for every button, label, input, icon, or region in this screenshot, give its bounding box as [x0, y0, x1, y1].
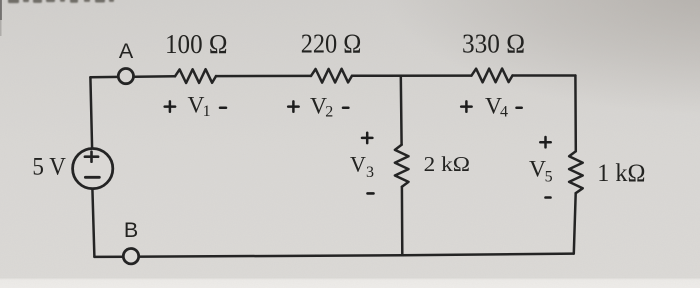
- wire middle branch from top junction down to R4: [400, 76, 403, 145]
- voltage source VS1 5V circle: [73, 149, 113, 189]
- label V1 polarity minus: [220, 106, 226, 109]
- svg-text:B: B: [124, 218, 138, 242]
- wire left branch from corner down to source top: [90, 77, 92, 148]
- label V4 polarity minus: [517, 106, 522, 109]
- svg-text:5 V: 5 V: [32, 154, 66, 181]
- svg-text:2 kΩ: 2 kΩ: [424, 152, 470, 176]
- svg-text:1 kΩ: 1 kΩ: [597, 160, 645, 187]
- svg-text:100 Ω: 100 Ω: [165, 29, 228, 59]
- svg-text:4: 4: [500, 104, 508, 121]
- svg-text:1: 1: [203, 103, 211, 120]
- label V2 polarity minus: [343, 106, 348, 109]
- wire R3 to top-right corner: [513, 74, 576, 77]
- label V5 polarity plus: [540, 137, 550, 147]
- label V3 polarity minus: [368, 192, 374, 195]
- svg-text:V: V: [529, 157, 546, 183]
- svg-text:V: V: [350, 151, 366, 176]
- wire top-left corner to R1 through node A: [90, 75, 175, 78]
- label V4 polarity plus: [461, 101, 471, 111]
- svg-text:330 Ω: 330 Ω: [462, 29, 525, 59]
- wire R4 bottom to bottom wire junction: [401, 187, 404, 256]
- wire bottom middle junction to bottom-right corner: [402, 254, 574, 256]
- page edge artifact: cut-off text glyph bottoms at top: [8, 0, 114, 3]
- node A open circle: [118, 69, 133, 84]
- label V1 polarity plus: [165, 101, 175, 111]
- svg-text:2: 2: [325, 104, 333, 121]
- svg-text:3: 3: [366, 164, 374, 181]
- wire right branch from top-right corner down to R5: [574, 76, 577, 152]
- page edge artifact: faint crease above bottom light strip: [0, 276, 700, 279]
- resistor R4 2 kohm vertical zigzag: [395, 145, 409, 187]
- svg-text:A: A: [119, 39, 134, 63]
- resistor R5 1 kohm vertical zigzag: [569, 151, 583, 193]
- resistor R3 330 ohm zigzag: [472, 69, 513, 83]
- svg-text:5: 5: [545, 169, 553, 186]
- wire bottom-left corner through node B to middle junction: [94, 255, 402, 257]
- page edge artifact: dark strip top-left: [0, 0, 2, 20]
- wire R2 past middle junction to R3: [352, 74, 472, 77]
- wire source bottom to bottom-left corner: [92, 189, 94, 257]
- node B open circle: [123, 249, 138, 264]
- resistor R1 100 ohm zigzag: [175, 69, 216, 83]
- voltage source plus terminal mark: [85, 152, 98, 162]
- label V3 polarity plus: [362, 133, 372, 143]
- label V2 polarity plus: [288, 101, 298, 111]
- label V5 polarity minus: [546, 196, 551, 199]
- voltage source minus terminal mark: [85, 176, 99, 179]
- wire R5 bottom to bottom-right corner: [574, 193, 576, 253]
- resistor R2 220 ohm zigzag: [311, 69, 352, 83]
- svg-text:220 Ω: 220 Ω: [301, 29, 362, 59]
- wire R1 to R2: [216, 75, 311, 78]
